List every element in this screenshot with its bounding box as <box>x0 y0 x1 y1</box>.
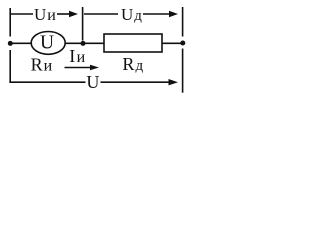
svg-text:I: I <box>69 46 75 66</box>
svg-text:U: U <box>86 72 99 92</box>
svg-text:и: и <box>44 58 53 75</box>
svg-text:U: U <box>121 5 133 24</box>
svg-text:и: и <box>77 49 86 66</box>
svg-text:и: и <box>47 7 56 24</box>
svg-text:R: R <box>31 55 43 75</box>
svg-text:U: U <box>40 32 54 53</box>
svg-text:д: д <box>136 58 144 74</box>
svg-text:U: U <box>34 5 46 24</box>
svg-text:д: д <box>134 8 142 24</box>
svg-text:R: R <box>122 54 134 74</box>
